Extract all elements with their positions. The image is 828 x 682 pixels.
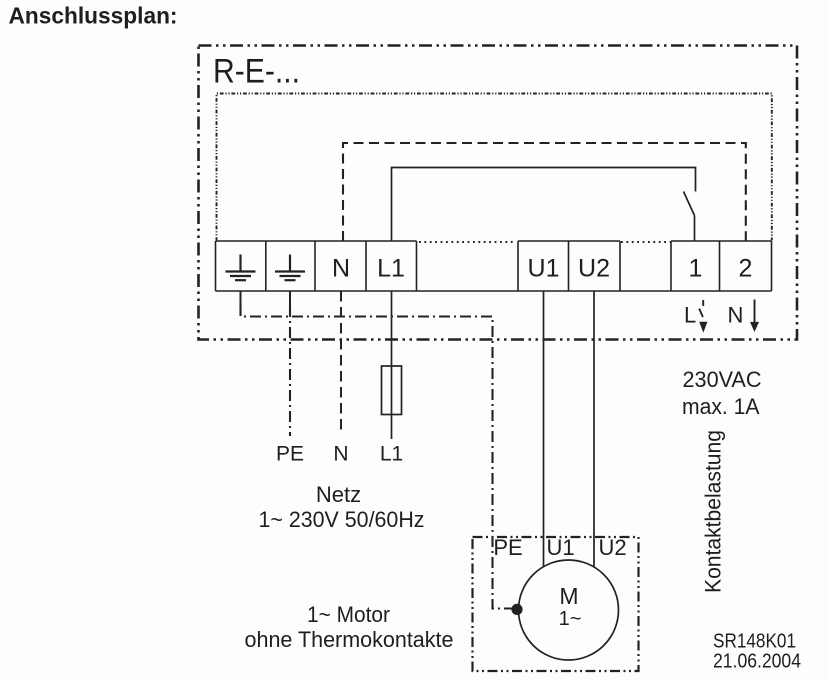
- motor enclosure box (dash-dot-dot): [473, 537, 639, 671]
- dotted strip segment between U2 and 1: [621, 241, 671, 243]
- dotted strip segment between L1 and U1: [419, 241, 516, 243]
- svg-text:1~ 230V 50/60Hz: 1~ 230V 50/60Hz: [259, 507, 425, 532]
- svg-text:N: N: [728, 302, 744, 327]
- svg-text:N: N: [332, 255, 350, 283]
- svg-text:Anschlussplan:: Anschlussplan:: [9, 3, 178, 29]
- N supply wire dashed down to label: [340, 291, 342, 434]
- wire relay contact to terminal 1: [694, 216, 696, 242]
- svg-text:230VAC: 230VAC: [683, 367, 762, 392]
- wire stub below terminal PE1: [240, 291, 242, 305]
- svg-text:R-E-...: R-E-...: [213, 53, 300, 91]
- dashed internal wire from terminal N to relay contact terminal 2: [343, 143, 746, 241]
- terminal strip X1 outline: [216, 241, 772, 291]
- svg-text:1~ Motor: 1~ Motor: [307, 602, 390, 627]
- PE supply wire dash-dot down to label: [289, 306, 291, 436]
- wire U2 to motor: [593, 291, 595, 568]
- motor M1 circle: [519, 560, 619, 660]
- svg-text:1~: 1~: [559, 608, 582, 630]
- svg-text:Kontaktbelastung: Kontaktbelastung: [701, 430, 726, 593]
- internal wire from terminal L1 to relay contact K1: [392, 168, 696, 242]
- relay contact K1 blade: [684, 192, 695, 216]
- svg-text:U1: U1: [528, 255, 560, 283]
- L1 supply wire through fuse: [391, 291, 393, 439]
- PE wire dash-dot run from PE1 to motor: [241, 305, 516, 609]
- svg-text:SR148K01: SR148K01: [713, 631, 796, 653]
- svg-text:L1: L1: [377, 255, 405, 283]
- controller enclosure U1 R-E (dash-dot-dot boundary): [199, 46, 798, 340]
- svg-text:L1: L1: [380, 443, 403, 466]
- wire U1 to motor: [543, 291, 545, 570]
- svg-text:U2: U2: [598, 535, 626, 560]
- fuse F1: [382, 366, 402, 415]
- svg-text:21.06.2004: 21.06.2004: [713, 651, 801, 673]
- svg-text:U2: U2: [578, 255, 610, 283]
- wire stub below terminal PE2: [289, 291, 291, 306]
- svg-text:max. 1A: max. 1A: [682, 394, 760, 419]
- ground symbol terminal PE2: [275, 255, 305, 281]
- arrow N: [754, 300, 756, 324]
- svg-text:M: M: [559, 583, 578, 609]
- controller board outline (fine dash-dot-dot): [217, 94, 772, 242]
- svg-text:U1: U1: [546, 535, 574, 560]
- svg-text:PE: PE: [493, 535, 522, 560]
- svg-text:Netz: Netz: [316, 482, 361, 507]
- svg-text:PE: PE: [276, 443, 304, 466]
- arrow L (broken stem): [699, 300, 703, 317]
- svg-text:ohne Thermokontakte: ohne Thermokontakte: [245, 627, 454, 652]
- svg-text:N: N: [333, 443, 348, 466]
- svg-text:2: 2: [739, 255, 753, 283]
- svg-text:1: 1: [689, 255, 703, 283]
- ground symbol terminal PE1: [226, 255, 256, 281]
- PE junction dot on motor: [511, 604, 522, 615]
- svg-text:L: L: [684, 302, 696, 327]
